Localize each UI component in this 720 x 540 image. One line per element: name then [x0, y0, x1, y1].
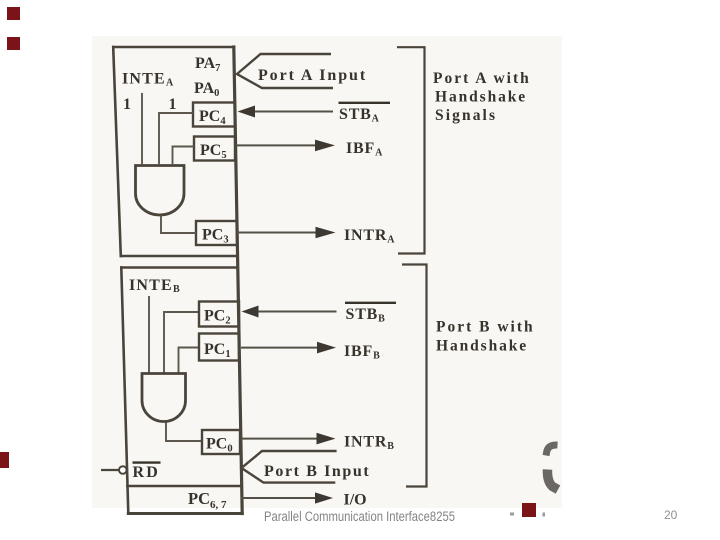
bracket: Port B group: [402, 265, 427, 487]
wire: PC1 to gate B input 3: [179, 348, 200, 374]
chevron: Port B Input callout: [242, 451, 337, 483]
artifact square 2: [7, 37, 20, 50]
svg-text:20: 20: [664, 508, 678, 522]
box PC5: [194, 137, 235, 162]
divider: top of PC6,7 strip: [127, 485, 241, 488]
and-gate B: [142, 374, 186, 422]
svg-text:INTEB: INTEB: [129, 277, 180, 295]
scan artifact: large C shape: [546, 445, 558, 490]
scan artifact: speck 2: [543, 513, 546, 517]
bracket: Port A group: [397, 47, 425, 253]
signal RD input line: [101, 469, 119, 471]
artifact square 1: [7, 7, 20, 20]
svg-text:I/O: I/O: [344, 492, 367, 509]
wire: INTE_A vertical to gate A input 1: [141, 93, 143, 165]
svg-text:1: 1: [169, 96, 177, 113]
box PC1: [199, 334, 239, 361]
signal INTR_B arrow (out of PC0): [241, 433, 336, 445]
bottom edge: [128, 512, 242, 515]
signal STB_B arrow (into PC2): [242, 306, 337, 318]
svg-text:Port B Input: Port B Input: [264, 463, 370, 480]
wire: PC5 to gate A input 3: [173, 147, 195, 166]
port A block left edge: [113, 47, 121, 256]
box PC2: [199, 302, 239, 327]
wire: PC2 to gate B input 2: [164, 312, 199, 373]
svg-text:Parallel Communication Interfa: Parallel Communication Interface8255: [264, 509, 455, 524]
svg-text:RD: RD: [133, 464, 161, 481]
svg-text:Signals: Signals: [435, 107, 497, 124]
svg-text:Port B with: Port B with: [436, 319, 535, 336]
wire: gate B output to PC0: [166, 422, 202, 441]
label RD with overline: [133, 463, 161, 481]
divider: bottom of port A block: [121, 255, 237, 258]
signal I/O arrow: [241, 492, 334, 503]
chevron: Port A Input callout: [237, 54, 333, 88]
wire: PC4 to gate A input 2: [159, 113, 193, 165]
svg-text:Handshake: Handshake: [435, 89, 527, 106]
svg-text:1: 1: [123, 96, 131, 113]
label STB_B with overline: [345, 303, 396, 325]
port B block left edge: [121, 268, 128, 514]
wire: INTE_B vertical to gate B input 1: [148, 296, 150, 373]
signal IBF_B arrow (out of PC1): [241, 342, 336, 354]
artifact square 4: [522, 503, 536, 517]
artifact square 3: [0, 452, 9, 468]
signal IBF_A arrow (out of PC5): [236, 140, 335, 152]
label STB_A with overline: [339, 103, 391, 125]
svg-text:Port A Input: Port A Input: [258, 67, 367, 84]
shared right edge: [234, 47, 242, 514]
divider: top of port B block: [121, 266, 237, 269]
scan artifact: speck 1: [510, 513, 514, 516]
signal INTR_A arrow (out of PC3): [237, 227, 336, 239]
and-gate A: [136, 166, 185, 216]
box PC0: [202, 430, 240, 455]
inverter bubble on RD: [119, 466, 127, 474]
svg-text:Handshake: Handshake: [436, 338, 528, 355]
box PC3: [196, 221, 237, 246]
svg-text:INTRB: INTRB: [344, 434, 394, 453]
signal STB_A arrow (into PC4): [238, 106, 334, 118]
scanned figure light paper wash: [92, 36, 562, 508]
svg-text:Port A with: Port A with: [433, 70, 531, 87]
box PC4: [193, 103, 235, 128]
port A block top edge: [114, 46, 235, 49]
wire: gate A output to PC3: [161, 216, 196, 234]
